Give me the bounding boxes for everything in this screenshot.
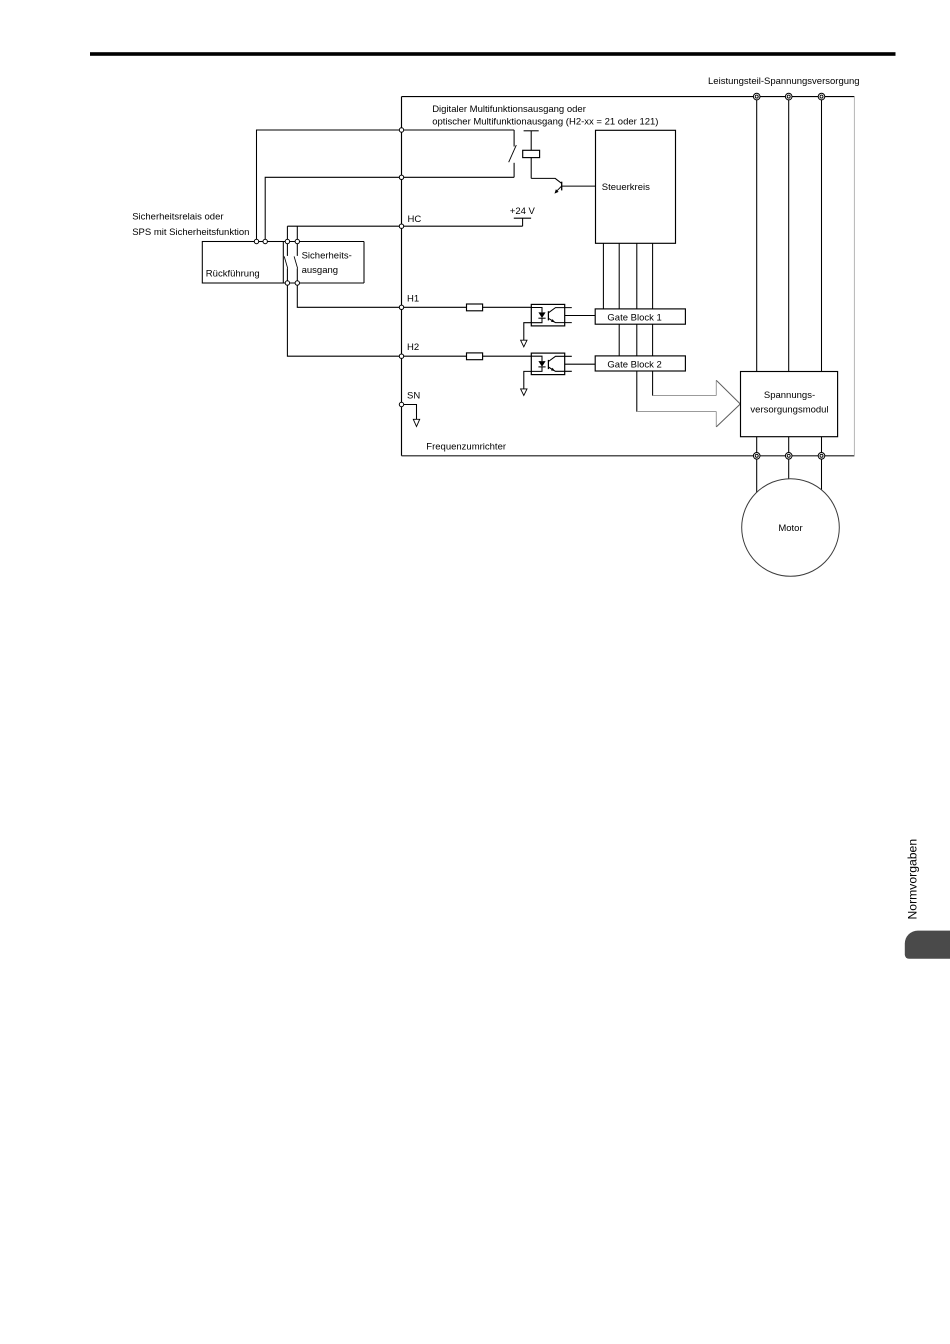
ground: PC2 — [521, 389, 527, 396]
svg-text:SPS mit Sicherheitsfunktion: SPS mit Sicherheitsfunktion — [132, 227, 249, 238]
node: HC terminal — [399, 224, 403, 228]
wire: HC rail to +24V — [287, 225, 522, 227]
svg-text:Digitaler Multifunktionsausgan: Digitaler Multifunktionsausgang oder — [432, 104, 586, 115]
enclosure: Frequenzumrichter box — [402, 97, 855, 456]
wire: link bar across relay boxes (top) — [202, 241, 364, 243]
box: Rückführung — [202, 242, 283, 284]
node: feedback 1 terminal — [399, 128, 403, 132]
safety contact S2 (right) — [294, 244, 298, 281]
box: Gate Block 2 — [595, 356, 685, 371]
box: Spannungsversorgungsmodul — [741, 372, 838, 437]
switch: digital output contact — [509, 130, 517, 177]
wire: SN to ground — [402, 405, 417, 420]
motor M — [742, 479, 840, 577]
wire: link bar across relay boxes (bottom) — [202, 282, 364, 284]
wires: power bus out of module to motor — [757, 437, 822, 498]
svg-text:H1: H1 — [407, 293, 419, 304]
svg-text:Sicherheitsrelais oder: Sicherheitsrelais oder — [132, 211, 223, 222]
svg-text:versorgungsmodul: versorgungsmodul — [750, 404, 828, 415]
node: H2 terminal — [399, 354, 403, 358]
relay coil K1 — [523, 131, 540, 179]
svg-text:Spannungs-: Spannungs- — [764, 390, 815, 401]
svg-text:Steuerkreis: Steuerkreis — [602, 182, 650, 193]
optocoupler PC1 — [531, 304, 572, 326]
wire: PC1 cathode to ground — [524, 323, 532, 341]
resistor R1 — [467, 304, 483, 311]
sidebar tab — [905, 931, 950, 959]
node: SN terminal — [399, 402, 403, 406]
svg-text:Normvorgaben: Normvorgaben — [906, 839, 920, 920]
svg-text:ausgang: ausgang — [302, 265, 338, 276]
transistor Q1: steuerkreis input driver — [531, 178, 595, 193]
wire: feedback loop 2 (lower) — [265, 177, 514, 241]
ground: PC1 — [521, 340, 527, 347]
header rule — [90, 52, 896, 56]
svg-text:Gate Block 1: Gate Block 1 — [607, 313, 661, 324]
node: feedback 2 terminal — [399, 175, 403, 179]
svg-text:H2: H2 — [407, 342, 419, 353]
arrow: gate signals to power module — [637, 380, 741, 427]
box: Sicherheitsausgang — [302, 242, 364, 284]
svg-text:optischer Multifunktionausgang: optischer Multifunktionausgang (H2-xx = … — [432, 116, 658, 127]
safety contact S1 (left) — [284, 244, 288, 281]
terminal W (bottom edge) — [818, 453, 825, 460]
terminal U (bottom edge) — [753, 453, 760, 460]
wire: feedback loop 1 (upper) — [257, 130, 515, 242]
svg-text:+24 V: +24 V — [510, 206, 536, 217]
svg-text:Rückführung: Rückführung — [206, 268, 260, 279]
svg-text:HC: HC — [408, 214, 422, 225]
svg-text:Leistungsteil-Spannungsversorg: Leistungsteil-Spannungsversorgung — [708, 76, 860, 87]
wire: PC1 output to Gate Block 1 — [565, 315, 596, 317]
wires: Steuerkreis to gate blocks — [603, 243, 652, 411]
wire: S2 to H1 input — [297, 285, 542, 307]
svg-text:Sicherheits-: Sicherheits- — [302, 250, 352, 261]
terminal T2 (top edge) — [785, 93, 792, 100]
box: Gate Block 1 — [595, 309, 685, 324]
terminal T1 (top edge) — [753, 93, 760, 100]
terminal V (bottom edge) — [785, 453, 792, 460]
svg-text:Motor: Motor — [778, 523, 802, 534]
node: contact junctions — [254, 239, 258, 243]
terminal T3 (top edge) — [818, 93, 825, 100]
ground: SN — [413, 419, 419, 426]
wire: PC2 cathode to ground — [524, 371, 532, 389]
node: H1 terminal — [399, 305, 403, 309]
wire: S1 to H2 input — [287, 285, 542, 356]
resistor R2 — [467, 353, 483, 360]
svg-text:Frequenzumrichter: Frequenzumrichter — [426, 441, 506, 452]
wire: PC2 output to Gate Block 2 — [565, 363, 596, 365]
svg-text:SN: SN — [407, 390, 420, 401]
optocoupler PC2 — [531, 353, 572, 375]
svg-text:Gate Block 2: Gate Block 2 — [607, 359, 661, 370]
supply tick: +24 V — [510, 206, 536, 226]
op-amp U1: Steuerkreis box — [596, 130, 676, 243]
wires: power bus into module — [757, 97, 822, 372]
